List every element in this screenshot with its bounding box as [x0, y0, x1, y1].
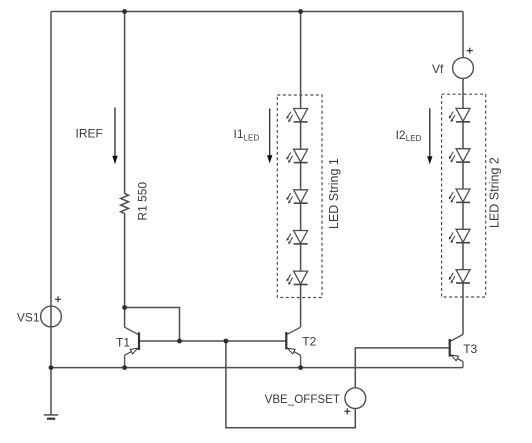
svg-text:I1: I1	[234, 127, 244, 141]
svg-text:T3: T3	[463, 342, 477, 356]
svg-text:LED String 1: LED String 1	[327, 158, 341, 229]
svg-text:R1 550: R1 550	[136, 182, 150, 221]
svg-text:LED String 2: LED String 2	[487, 157, 501, 228]
svg-text:T1: T1	[116, 335, 130, 349]
svg-text:I2: I2	[396, 128, 406, 142]
svg-text:VBE_OFFSET: VBE_OFFSET	[265, 393, 340, 406]
svg-text:Vf: Vf	[432, 62, 444, 76]
svg-text:VS1: VS1	[17, 310, 40, 324]
svg-text:T2: T2	[302, 334, 316, 348]
svg-text:LED: LED	[406, 134, 422, 143]
svg-text:IREF: IREF	[76, 127, 103, 141]
svg-text:LED: LED	[244, 133, 260, 142]
